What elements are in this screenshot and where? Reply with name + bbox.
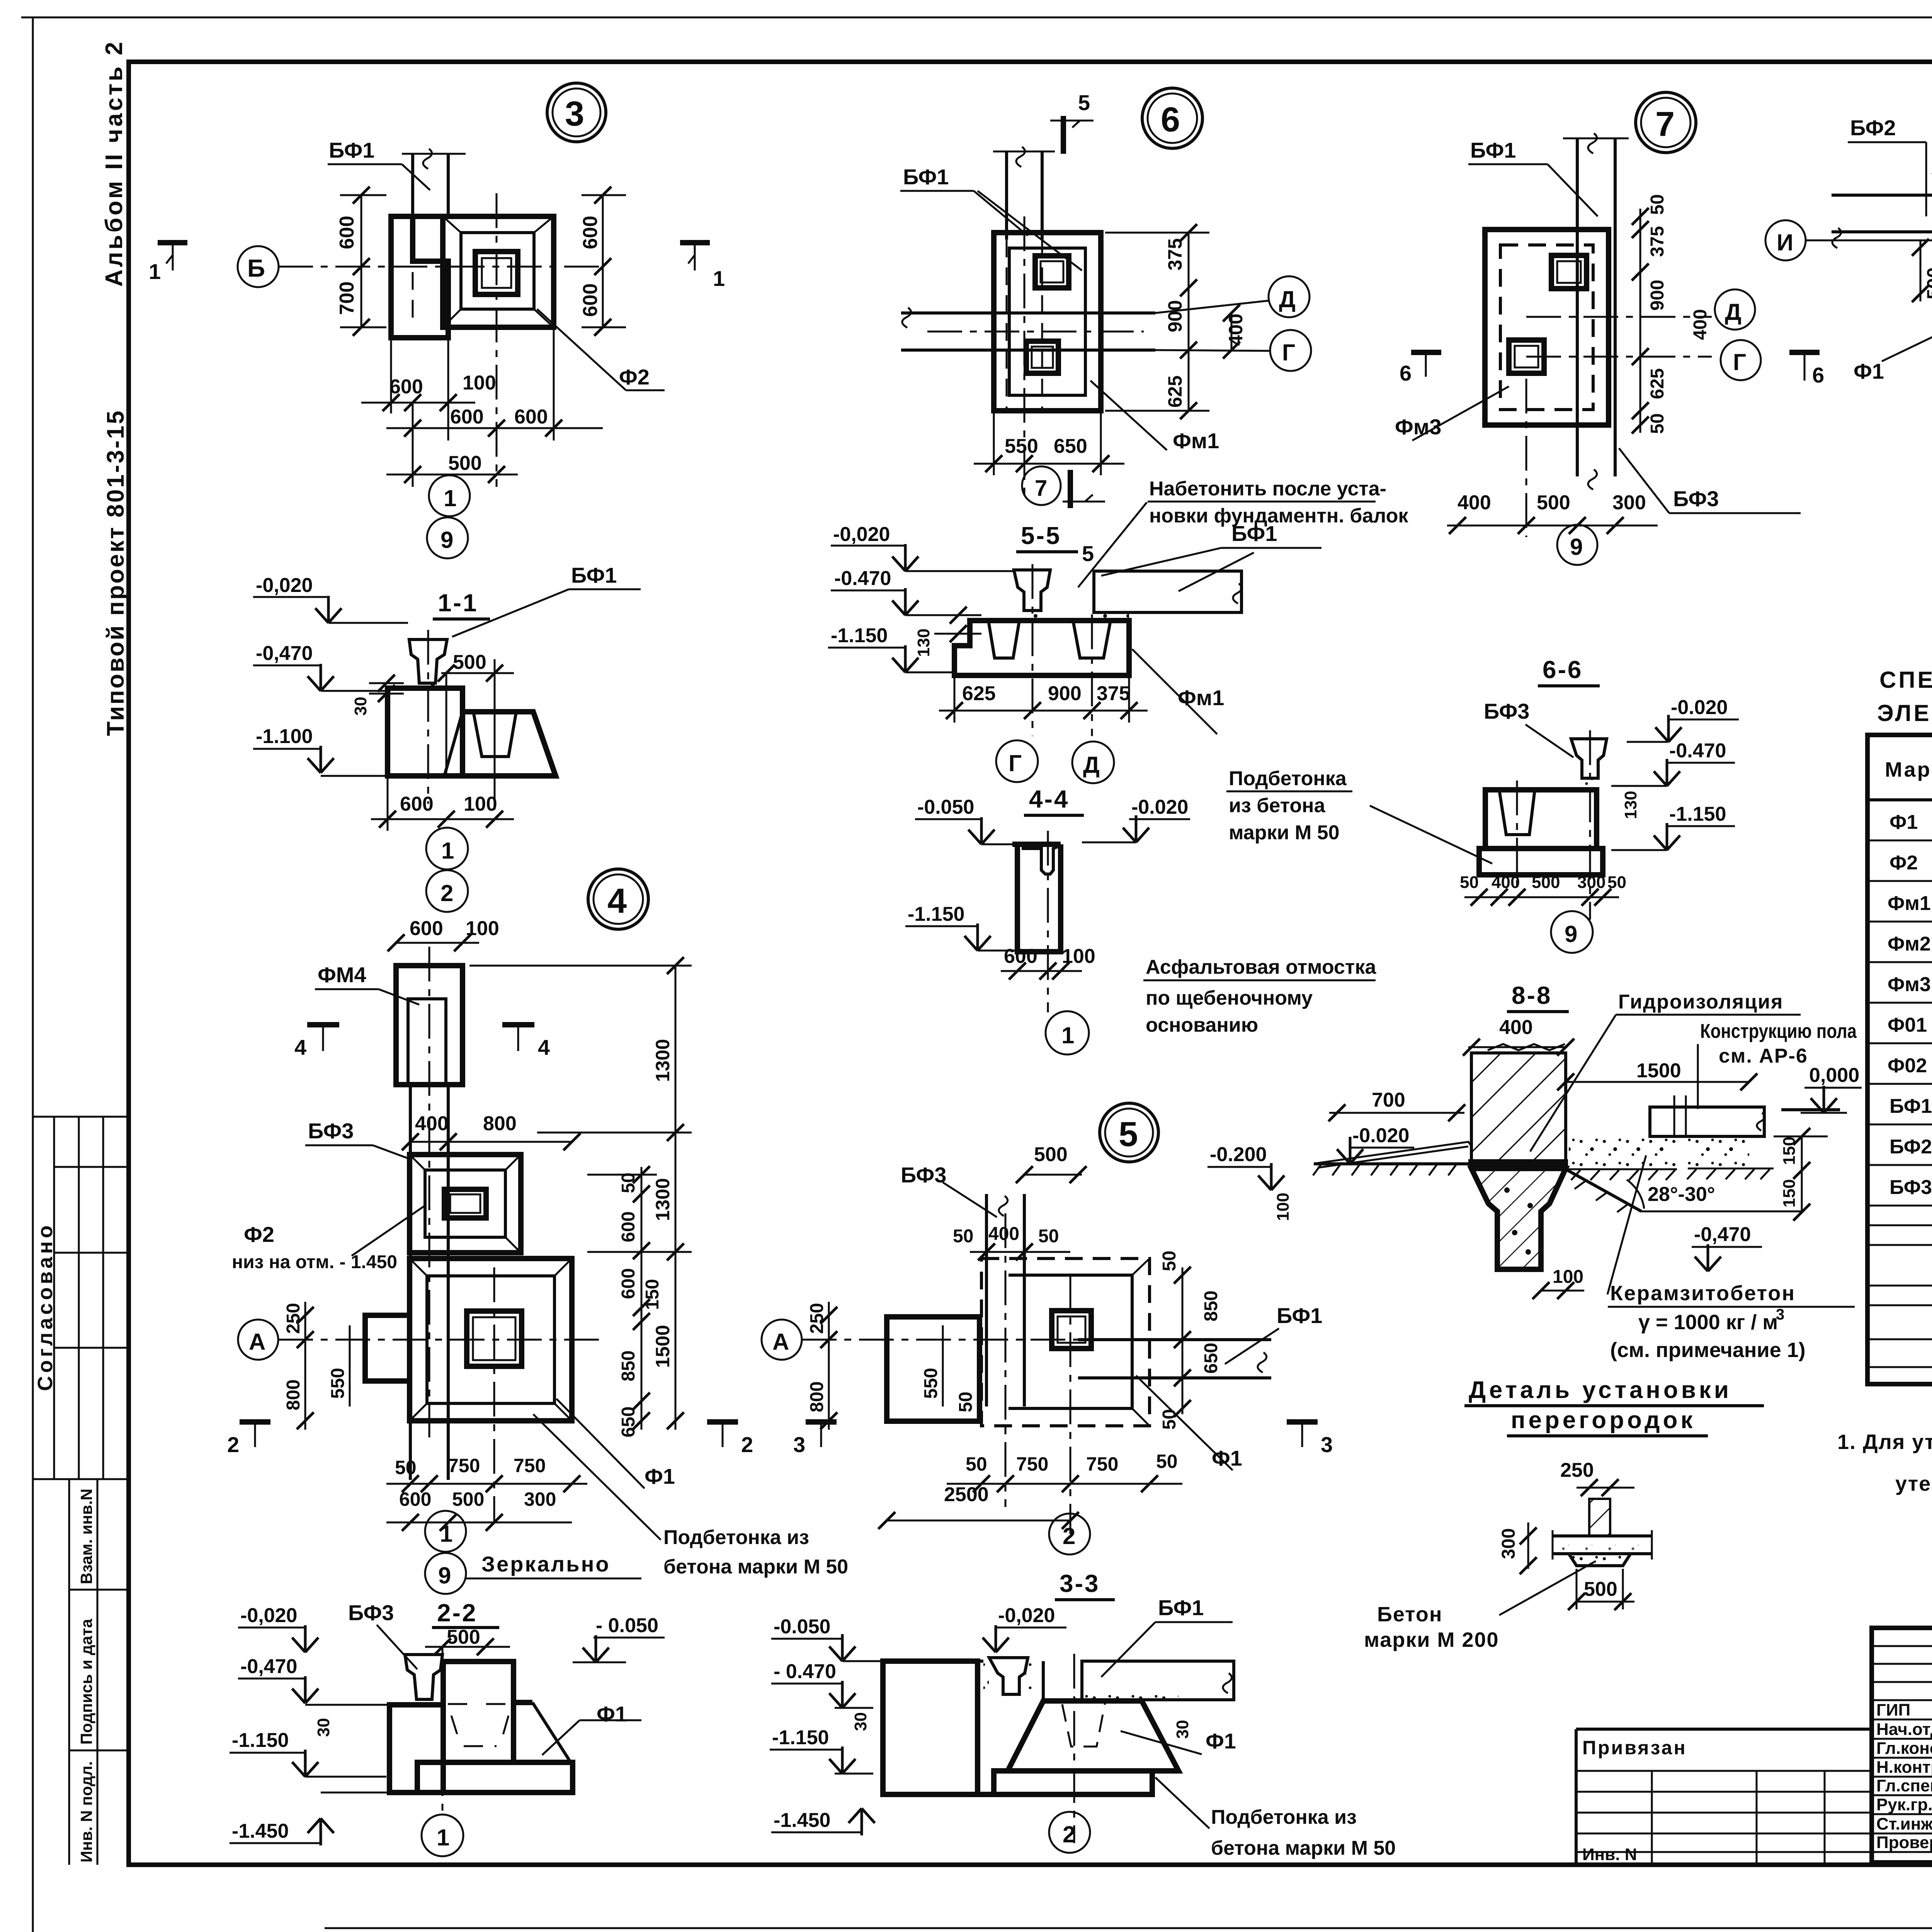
floor slab right xyxy=(1650,1107,1764,1136)
svg-text:50: 50 xyxy=(1647,194,1668,215)
axis circles Д Г xyxy=(1269,276,1310,317)
svg-text:100: 100 xyxy=(463,372,496,394)
svg-text:Ф1: Ф1 xyxy=(597,1702,627,1726)
centerlines xyxy=(1032,564,1034,736)
svg-text:800: 800 xyxy=(807,1381,827,1412)
svg-text:650: 650 xyxy=(618,1406,639,1437)
note leader into joint xyxy=(1078,502,1147,587)
svg-text:3-3: 3-3 xyxy=(1060,1570,1100,1597)
svg-text:1: 1 xyxy=(441,838,454,864)
svg-text:650: 650 xyxy=(1201,1343,1221,1374)
svg-text:1300: 1300 xyxy=(652,1178,673,1221)
svg-text:Нач.отд.: Нач.отд. xyxy=(1876,1720,1932,1739)
data rows xyxy=(1888,811,1932,1374)
foundation block xyxy=(388,688,463,776)
svg-text:2500: 2500 xyxy=(944,1483,989,1506)
svg-text:-0.020: -0.020 xyxy=(1131,796,1188,818)
svg-text:2: 2 xyxy=(741,1432,753,1457)
svg-text:БФ3: БФ3 xyxy=(1484,699,1529,723)
svg-text:50: 50 xyxy=(395,1457,417,1478)
svg-text:Ф1: Ф1 xyxy=(1854,359,1884,383)
axis circle 1 xyxy=(1046,1011,1089,1054)
svg-text:500: 500 xyxy=(448,452,482,474)
centerlines xyxy=(1516,781,1518,889)
horizontal beam lines through xyxy=(901,311,1155,315)
svg-text:Альбом II часть 2: Альбом II часть 2 xyxy=(101,39,128,287)
upper plan square xyxy=(410,1155,521,1253)
svg-text:4-4: 4-4 xyxy=(1029,785,1070,813)
svg-text:γ = 1000 кг / м: γ = 1000 кг / м xyxy=(1638,1311,1778,1334)
dims 150 150 right xyxy=(1801,1136,1803,1212)
svg-text:2: 2 xyxy=(1063,1523,1075,1549)
section mark 1 left xyxy=(158,240,187,245)
svg-text:-0.050: -0.050 xyxy=(917,796,974,818)
svg-text:БФ3: БФ3 xyxy=(348,1600,394,1625)
section mark 1 right xyxy=(680,240,710,245)
axis circles 1 9 xyxy=(425,1511,466,1552)
right dim chains xyxy=(641,1167,643,1430)
svg-text:БФ1: БФ1 xyxy=(571,563,617,587)
beam vertical xyxy=(1005,152,1008,240)
svg-text:Асфальтовая отмостка: Асфальтовая отмостка xyxy=(1146,956,1376,978)
svg-text:Ф2: Ф2 xyxy=(1889,852,1918,874)
svg-text:50: 50 xyxy=(1607,873,1626,892)
svg-text:250: 250 xyxy=(807,1303,827,1334)
dims 600 600 xyxy=(412,403,414,487)
svg-text:50: 50 xyxy=(1156,1451,1178,1472)
svg-text:Рук.гр.: Рук.гр. xyxy=(1876,1795,1932,1814)
svg-text:-0,020: -0,020 xyxy=(833,523,890,546)
svg-text:400: 400 xyxy=(988,1224,1019,1244)
beam cross-section xyxy=(1571,739,1607,778)
axis circles Д Г xyxy=(1715,289,1755,330)
dim 500 plan xyxy=(386,474,518,476)
partition hatched bar xyxy=(1589,1499,1610,1536)
outer thin border top xyxy=(21,17,1932,19)
svg-text:375: 375 xyxy=(1164,238,1186,270)
svg-text:Набетонить после уста-: Набетонить после уста- xyxy=(1149,478,1386,500)
table outline xyxy=(1867,735,1932,1384)
foundation block xyxy=(1485,790,1597,849)
axis circle А xyxy=(238,1320,278,1360)
svg-text:-1.150: -1.150 xyxy=(232,1729,289,1752)
svg-text:500: 500 xyxy=(452,1488,484,1510)
label Фм1 with leader xyxy=(1090,381,1167,450)
svg-text:Бетон: Бетон xyxy=(1377,1603,1442,1626)
svg-text:марки М 200: марки М 200 xyxy=(1364,1628,1499,1651)
svg-text:850: 850 xyxy=(1201,1291,1221,1321)
svg-text:Д: Д xyxy=(1279,286,1296,312)
svg-text:150: 150 xyxy=(642,1279,663,1310)
bottom dims 625 900 375 xyxy=(954,675,956,723)
bottom dims 50 750 750 50 xyxy=(386,1483,587,1485)
svg-text:800: 800 xyxy=(483,1112,517,1135)
svg-text:низ на отм. - 1.450: низ на отм. - 1.450 xyxy=(232,1252,397,1272)
svg-text:Согласовано: Согласовано xyxy=(34,1222,57,1391)
svg-text:30: 30 xyxy=(351,697,370,716)
bottom slab xyxy=(417,1762,573,1793)
svg-text:Фм2: Фм2 xyxy=(1888,933,1931,955)
svg-text:1: 1 xyxy=(440,1521,452,1547)
monolith Фм4 xyxy=(396,966,463,1085)
right dims 50 850 650 50 xyxy=(1182,1267,1184,1414)
svg-text:7: 7 xyxy=(1035,476,1047,501)
svg-text:новки фундаментн. балок: новки фундаментн. балок xyxy=(1149,505,1408,527)
beam БФ1 horizontal xyxy=(1078,1338,1271,1341)
outer bottom partial line xyxy=(325,1927,1932,1929)
svg-text:-0,020: -0,020 xyxy=(998,1604,1055,1627)
inner cup xyxy=(473,712,516,757)
svg-text:БФ1: БФ1 xyxy=(1889,1095,1932,1117)
svg-text:Б: Б xyxy=(247,254,265,282)
svg-text:БФ1: БФ1 xyxy=(1470,138,1516,162)
svg-text:600: 600 xyxy=(618,1268,639,1299)
top dims 600 100 xyxy=(396,942,479,944)
svg-text:2: 2 xyxy=(1063,1821,1075,1847)
svg-text:500: 500 xyxy=(1034,1143,1068,1166)
svg-text:50: 50 xyxy=(1647,413,1668,434)
svg-text:БФ1: БФ1 xyxy=(1158,1595,1204,1620)
svg-text:Фм1: Фм1 xyxy=(1178,685,1224,710)
svg-text:-1.450: -1.450 xyxy=(232,1820,289,1842)
svg-text:130: 130 xyxy=(914,629,933,657)
svg-text:9: 9 xyxy=(440,527,453,553)
svg-text:-1.150: -1.150 xyxy=(772,1726,829,1749)
centerline xyxy=(442,1647,444,1816)
svg-text:250: 250 xyxy=(283,1303,304,1334)
svg-text:550: 550 xyxy=(921,1368,941,1399)
foundation trapezoid xyxy=(1008,1701,1179,1771)
svg-text:600: 600 xyxy=(514,406,548,428)
svg-text:Ф2: Ф2 xyxy=(244,1222,274,1247)
svg-text:Ф02: Ф02 xyxy=(1888,1054,1927,1077)
svg-text:500: 500 xyxy=(1923,267,1932,299)
svg-text:Фм1: Фм1 xyxy=(1888,892,1931,915)
svg-text:375: 375 xyxy=(1647,226,1668,257)
svg-text:6: 6 xyxy=(1812,363,1824,387)
svg-text:4: 4 xyxy=(538,1035,550,1060)
svg-text:5: 5 xyxy=(1082,541,1094,566)
axis circles Г Д xyxy=(996,740,1038,782)
svg-text:500: 500 xyxy=(453,651,486,673)
cup xyxy=(1499,790,1535,835)
svg-text:1: 1 xyxy=(149,259,161,284)
svg-text:БФ1: БФ1 xyxy=(1277,1303,1322,1328)
svg-text:Ф01: Ф01 xyxy=(1888,1014,1927,1036)
beam vertical xyxy=(1576,139,1579,476)
svg-text:50: 50 xyxy=(966,1453,987,1475)
svg-text:300: 300 xyxy=(524,1488,556,1510)
svg-text:100: 100 xyxy=(1274,1193,1293,1221)
svg-text:750: 750 xyxy=(1016,1453,1048,1475)
bottom dims 600 100 xyxy=(387,776,389,831)
svg-text:5-5: 5-5 xyxy=(1021,522,1061,549)
svg-text:50: 50 xyxy=(953,1226,973,1247)
svg-text:900: 900 xyxy=(1647,280,1668,311)
svg-text:600: 600 xyxy=(399,1488,431,1510)
detail number circle 6 xyxy=(1142,88,1202,148)
pad below xyxy=(1569,1554,1631,1566)
svg-text:625: 625 xyxy=(962,682,996,705)
svg-text:Гл.констр: Гл.констр xyxy=(1876,1739,1932,1758)
svg-text:Подбетонка: Подбетонка xyxy=(1229,767,1347,790)
small column squares xyxy=(1035,256,1069,288)
axis circles 1 and 9 xyxy=(429,475,470,516)
svg-text:650: 650 xyxy=(1054,435,1087,457)
svg-text:1500: 1500 xyxy=(652,1325,673,1368)
svg-text:6-6: 6-6 xyxy=(1543,656,1583,684)
axis circle 2 xyxy=(1049,1812,1090,1853)
foundation beam below (trapezoid) xyxy=(1471,1168,1566,1269)
svg-text:-1.150: -1.150 xyxy=(908,903,964,925)
svg-text:100: 100 xyxy=(466,917,499,940)
svg-text:600: 600 xyxy=(336,216,358,249)
axis circle А xyxy=(762,1320,802,1360)
dim 2500 xyxy=(887,1520,1070,1522)
waterproofing black band xyxy=(1468,1159,1568,1168)
leader to beam xyxy=(402,164,430,190)
svg-text:Деталь установки: Деталь установки xyxy=(1469,1377,1732,1403)
gravel concrete fill xyxy=(1569,1138,1677,1169)
svg-text:600: 600 xyxy=(400,793,434,815)
axis circle 7 + section mark 5 xyxy=(1022,466,1061,505)
Согласовано table xyxy=(33,1116,129,1118)
svg-text:500: 500 xyxy=(447,1626,480,1648)
svg-text:-0,020: -0,020 xyxy=(256,574,313,597)
svg-text:600: 600 xyxy=(450,406,484,428)
foundation Фм1 stepped block xyxy=(954,621,1129,675)
ground surface left with hatching xyxy=(1314,1162,1471,1165)
slab right БФ1 xyxy=(1082,1661,1234,1700)
centerline xyxy=(1047,831,1049,1012)
svg-text:Г: Г xyxy=(1733,349,1746,375)
svg-text:-1.150: -1.150 xyxy=(1669,803,1726,825)
bottom dims 600 100 xyxy=(390,338,392,413)
svg-text:-1.450: -1.450 xyxy=(774,1809,830,1832)
svg-text:100: 100 xyxy=(464,793,497,815)
detail number circle 5 xyxy=(1100,1103,1158,1162)
svg-text:3: 3 xyxy=(565,95,584,133)
svg-text:Ф1: Ф1 xyxy=(645,1464,675,1488)
slab lines xyxy=(1553,1534,1652,1537)
svg-text:БФ3: БФ3 xyxy=(308,1119,354,1143)
svg-text:-0,470: -0,470 xyxy=(1694,1223,1751,1246)
bottom dims 50 400 500 300 50 xyxy=(1464,896,1619,898)
svg-text:700: 700 xyxy=(336,281,358,315)
svg-text:-0.020: -0.020 xyxy=(1352,1124,1409,1147)
centerlines xyxy=(1024,216,1026,502)
svg-text:400: 400 xyxy=(1225,314,1247,346)
svg-text:ФМ4: ФМ4 xyxy=(318,963,366,987)
axis circles 1 2 xyxy=(426,828,468,869)
left dim line xyxy=(361,195,362,327)
svg-text:600: 600 xyxy=(389,376,423,398)
dims 250 800 550 50 xyxy=(828,1302,830,1430)
svg-text:Конструкцию пола: Конструкцию пола xyxy=(1700,1020,1857,1043)
svg-text:3: 3 xyxy=(1776,1306,1784,1323)
svg-text:из бетона: из бетона xyxy=(1229,794,1326,817)
svg-text:2-2: 2-2 xyxy=(437,1599,478,1627)
svg-text:3: 3 xyxy=(1321,1432,1333,1457)
svg-text:БФ1: БФ1 xyxy=(1231,521,1277,546)
svg-text:800: 800 xyxy=(283,1379,304,1410)
dashed cup xyxy=(1062,1702,1105,1747)
beam cross-section xyxy=(1014,570,1050,611)
svg-text:400: 400 xyxy=(1499,1016,1533,1039)
plan outer square (dashed) xyxy=(981,1259,1150,1426)
svg-text:-0,470: -0,470 xyxy=(256,642,313,665)
svg-text:Ф1: Ф1 xyxy=(1889,811,1918,833)
svg-text:300: 300 xyxy=(1577,873,1605,892)
svg-text:4: 4 xyxy=(294,1035,306,1060)
svg-text:утеплитель вдоль наружных стен: утеплитель вдоль наружных стен по сечени… xyxy=(1895,1472,1932,1495)
right dim chain xyxy=(1188,233,1190,411)
slab right xyxy=(1094,571,1242,612)
svg-text:-0,470: -0,470 xyxy=(240,1655,297,1678)
right dim line xyxy=(602,195,604,327)
svg-text:БФ2: БФ2 xyxy=(1889,1136,1932,1158)
svg-text:750: 750 xyxy=(1086,1453,1118,1475)
svg-text:Гл.спец.: Гл.спец. xyxy=(1876,1776,1932,1795)
svg-text:7: 7 xyxy=(1655,105,1675,144)
svg-text:Зеркально: Зеркально xyxy=(481,1552,611,1576)
svg-text:700: 700 xyxy=(1372,1089,1405,1111)
svg-text:- 0.470: - 0.470 xyxy=(774,1660,836,1683)
dim 250 800 550 xyxy=(304,1302,306,1430)
svg-text:основанию: основанию xyxy=(1146,1014,1258,1036)
svg-text:50: 50 xyxy=(1159,1409,1180,1430)
label Ф2 with leader xyxy=(537,309,626,390)
beam БФ3 cross-section xyxy=(405,1655,442,1699)
chamfer inner rect xyxy=(461,233,534,309)
svg-text:50: 50 xyxy=(618,1173,639,1193)
svg-text:БФ2: БФ2 xyxy=(1850,116,1896,140)
svg-text:3: 3 xyxy=(793,1432,805,1457)
beam БФ2 horizontal dashed xyxy=(1832,194,1932,197)
svg-text:Привязан: Привязан xyxy=(1582,1737,1687,1759)
cups xyxy=(988,621,1019,658)
svg-text:400: 400 xyxy=(1458,492,1491,514)
dims 50 400 50 xyxy=(970,1251,1070,1253)
svg-text:Д: Д xyxy=(1725,299,1742,325)
svg-text:50: 50 xyxy=(956,1392,976,1412)
svg-text:375: 375 xyxy=(1097,682,1130,705)
svg-text:-0.050: -0.050 xyxy=(774,1616,830,1638)
svg-text:- 0.050: - 0.050 xyxy=(596,1614,658,1637)
svg-text:625: 625 xyxy=(1647,368,1668,399)
svg-text:850: 850 xyxy=(618,1350,639,1381)
beam cross section xyxy=(409,639,447,683)
svg-text:Подбетонка из: Подбетонка из xyxy=(663,1526,809,1549)
section marks 3 xyxy=(806,1419,837,1425)
beam БФ1 vertical xyxy=(411,155,414,216)
svg-text:1: 1 xyxy=(1061,1022,1074,1048)
svg-text:Инв. N: Инв. N xyxy=(1582,1845,1637,1864)
svg-text:300: 300 xyxy=(1498,1528,1519,1559)
svg-text:2: 2 xyxy=(227,1432,239,1457)
svg-text:5: 5 xyxy=(1119,1115,1138,1154)
column with socket xyxy=(1017,844,1061,952)
svg-text:600: 600 xyxy=(1004,945,1037,968)
svg-text:1: 1 xyxy=(713,266,725,291)
svg-text:0,000: 0,000 xyxy=(1809,1064,1859,1087)
bottom dims 400 500 300 xyxy=(1447,525,1658,527)
svg-text:600: 600 xyxy=(579,283,602,317)
svg-text:Г: Г xyxy=(1009,750,1022,776)
centerline xyxy=(427,630,429,804)
svg-text:Д: Д xyxy=(1083,752,1100,778)
beam dashed through foundation xyxy=(412,216,414,327)
foundation Ф2 outer square xyxy=(443,216,554,327)
svg-text:30: 30 xyxy=(314,1718,333,1737)
axis circle 9 xyxy=(1557,525,1597,565)
svg-text:1500: 1500 xyxy=(1636,1060,1681,1082)
svg-text:Типовой проект 801-3-15: Типовой проект 801-3-15 xyxy=(102,409,129,736)
svg-text:625: 625 xyxy=(1164,376,1186,408)
svg-text:БФ3: БФ3 xyxy=(901,1163,946,1187)
svg-text:-1.100: -1.100 xyxy=(256,725,313,748)
section marks 2 xyxy=(240,1419,270,1425)
svg-text:Ф1: Ф1 xyxy=(1206,1729,1236,1753)
small column squares xyxy=(1551,255,1587,289)
section mark 5 top xyxy=(1061,116,1066,154)
svg-text:А: А xyxy=(249,1329,265,1355)
beam trapezoid in recess xyxy=(989,1658,1028,1694)
svg-text:550: 550 xyxy=(328,1368,348,1399)
svg-text:4: 4 xyxy=(607,882,627,920)
svg-text:перегородок: перегородок xyxy=(1511,1407,1696,1434)
svg-text:Фм3: Фм3 xyxy=(1395,415,1441,439)
svg-text:1: 1 xyxy=(437,1825,449,1850)
svg-text:И: И xyxy=(1777,230,1793,255)
svg-text:Фм1: Фм1 xyxy=(1173,429,1219,453)
detail number circle 7 xyxy=(1636,92,1696,153)
axis circle И xyxy=(1765,220,1806,260)
svg-text:1: 1 xyxy=(444,485,456,511)
svg-text:30: 30 xyxy=(1173,1720,1192,1739)
svg-text:Г: Г xyxy=(1282,340,1295,366)
left small table of title block xyxy=(1576,1729,1872,1864)
svg-text:-0.470: -0.470 xyxy=(834,567,891,590)
left neighbour block xyxy=(391,216,448,338)
beam БФ3 vertical xyxy=(409,1085,412,1480)
svg-text:Гидроизоляция: Гидроизоляция xyxy=(1618,991,1783,1013)
svg-text:Подбетонка из: Подбетонка из xyxy=(1211,1806,1357,1828)
centerlines xyxy=(802,1339,1078,1341)
svg-text:28°-30°: 28°-30° xyxy=(1648,1183,1715,1206)
svg-text:400: 400 xyxy=(1492,873,1520,892)
lower sidebar table xyxy=(33,1478,129,1480)
svg-text:300: 300 xyxy=(1612,492,1646,514)
svg-text:-0.200: -0.200 xyxy=(1210,1143,1267,1166)
svg-text:9: 9 xyxy=(438,1563,451,1588)
svg-text:600: 600 xyxy=(410,917,443,940)
svg-text:100: 100 xyxy=(1062,945,1095,968)
signature rows xyxy=(1872,1645,1932,1647)
svg-text:БФ3: БФ3 xyxy=(1889,1176,1932,1199)
svg-text:см. АР-6: см. АР-6 xyxy=(1719,1045,1808,1067)
centerline xyxy=(1073,1654,1075,1843)
svg-text:6: 6 xyxy=(1161,100,1180,139)
svg-text:А: А xyxy=(772,1329,789,1355)
svg-text:250: 250 xyxy=(1560,1459,1594,1481)
svg-text:ГИП: ГИП xyxy=(1876,1701,1910,1719)
svg-text:БФ3: БФ3 xyxy=(1673,486,1719,511)
detail number circle 4 xyxy=(588,869,648,929)
dims 400 800 xyxy=(410,1141,572,1143)
svg-text:550: 550 xyxy=(1005,435,1038,457)
lower plan square xyxy=(410,1259,572,1421)
